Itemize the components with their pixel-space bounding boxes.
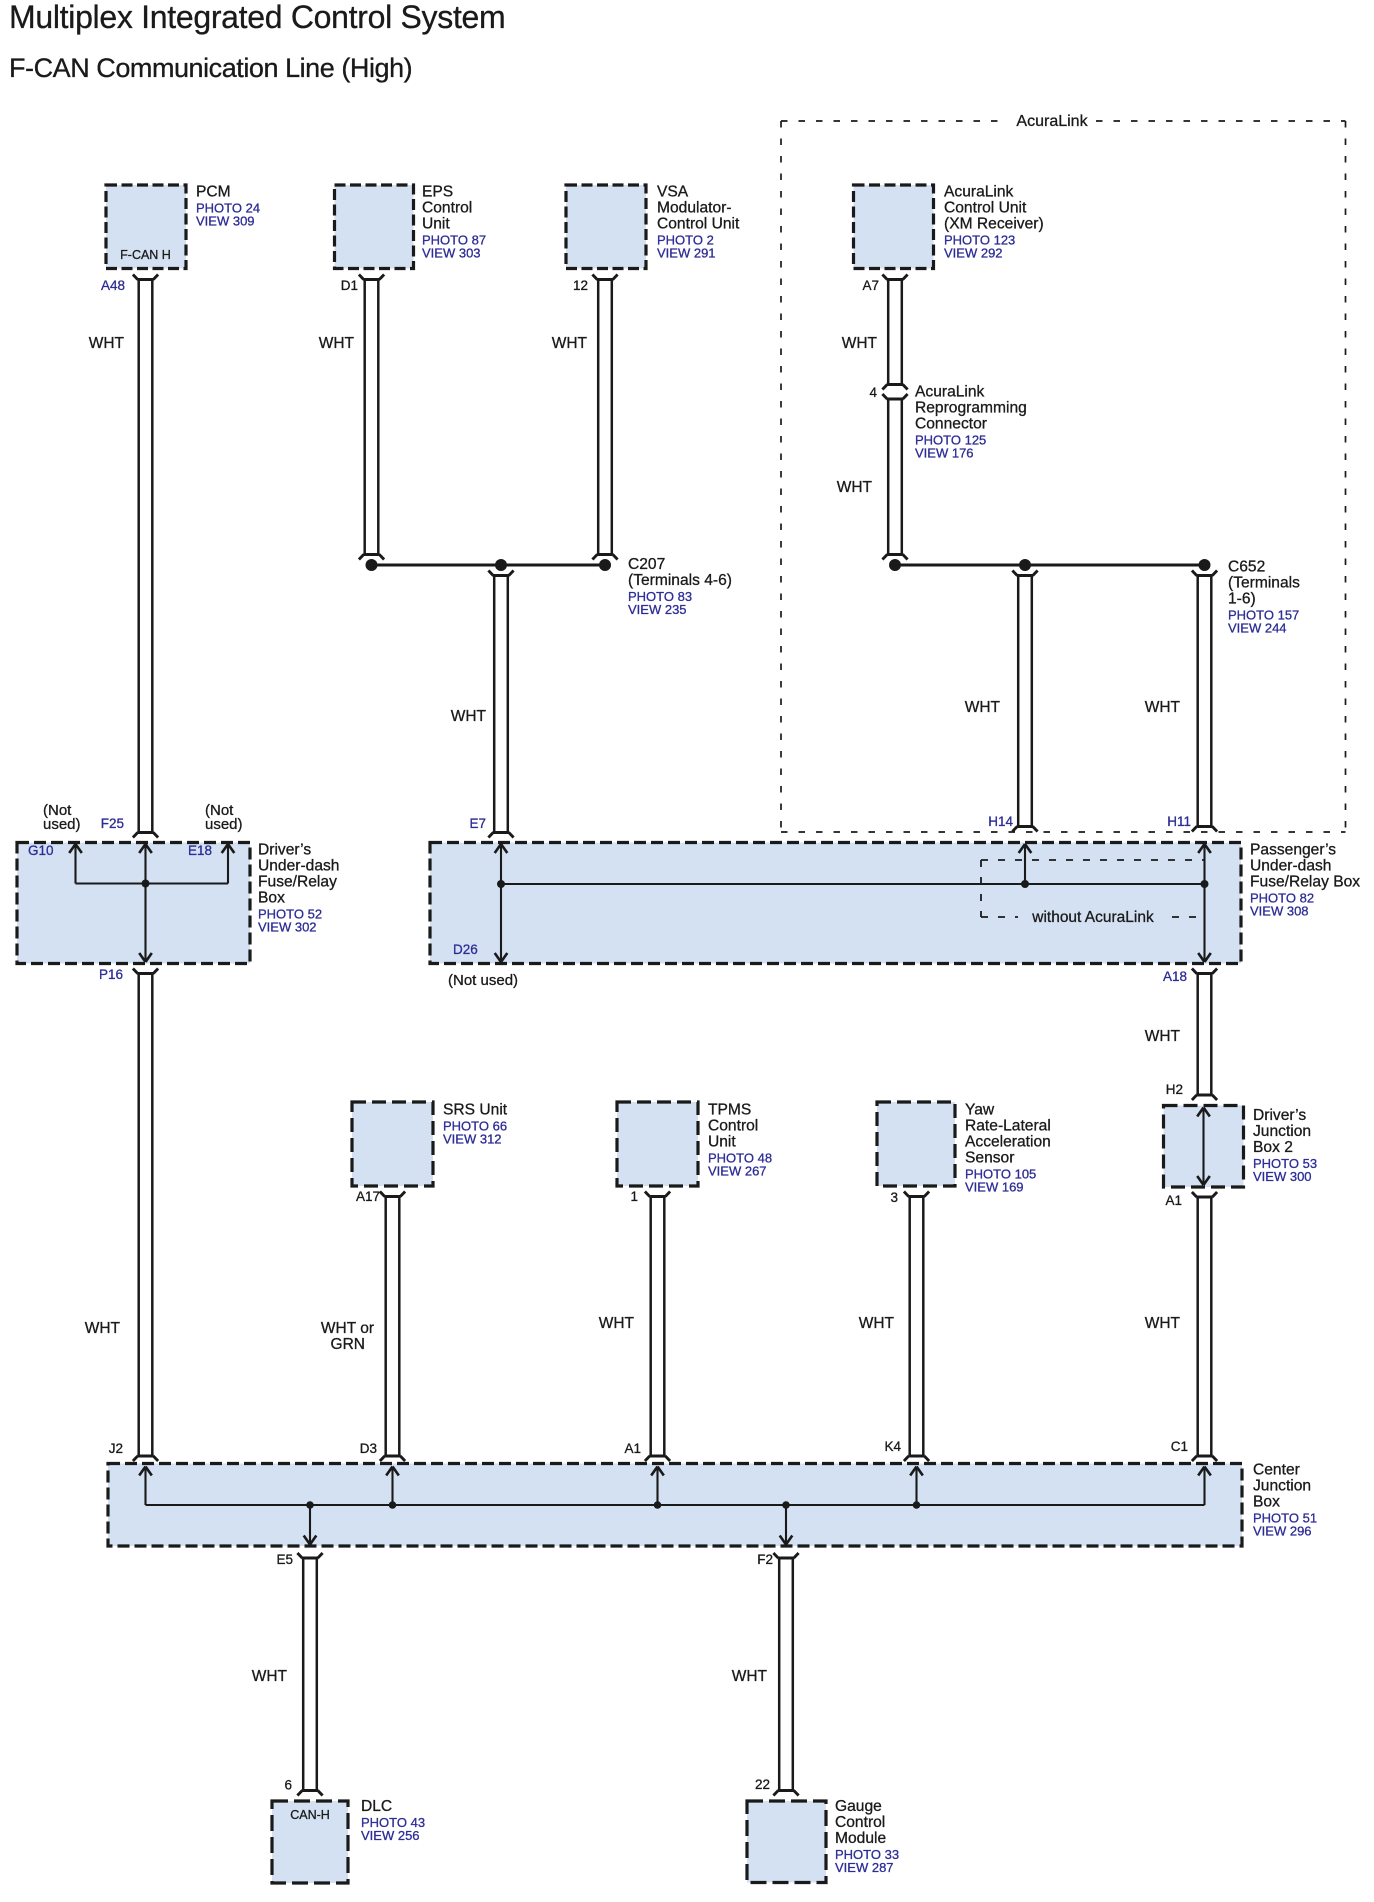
svg-text:VIEW 244: VIEW 244	[1228, 621, 1287, 636]
svg-text:Rate-Lateral: Rate-Lateral	[965, 1118, 1051, 1135]
svg-text:A1: A1	[1165, 1193, 1182, 1208]
svg-text:AcuraLink: AcuraLink	[1016, 113, 1088, 130]
svg-text:Fuse/Relay: Fuse/Relay	[258, 874, 337, 891]
svg-text:Control Unit: Control Unit	[657, 216, 740, 233]
svg-text:used): used)	[205, 816, 243, 833]
svg-text:Driver’s: Driver’s	[258, 842, 311, 859]
svg-text:PCM: PCM	[196, 184, 231, 201]
svg-text:VIEW 235: VIEW 235	[628, 602, 687, 617]
svg-text:Connector: Connector	[915, 416, 987, 433]
svg-text:D26: D26	[453, 942, 478, 957]
svg-text:3: 3	[890, 1190, 898, 1205]
svg-text:Box: Box	[258, 890, 285, 907]
svg-text:E5: E5	[276, 1552, 293, 1567]
svg-text:WHT: WHT	[837, 479, 873, 496]
svg-text:WHT: WHT	[732, 1668, 768, 1685]
svg-text:VIEW 302: VIEW 302	[258, 920, 317, 935]
svg-text:12: 12	[573, 278, 588, 293]
svg-text:Box 2: Box 2	[1253, 1139, 1293, 1156]
svg-text:AcuraLink: AcuraLink	[944, 184, 1014, 201]
svg-text:used): used)	[43, 816, 81, 833]
svg-text:Box: Box	[1253, 1494, 1280, 1511]
svg-text:WHT: WHT	[859, 1315, 895, 1332]
svg-text:VIEW 309: VIEW 309	[196, 214, 255, 229]
svg-text:VIEW 296: VIEW 296	[1253, 1524, 1312, 1539]
svg-text:Junction: Junction	[1253, 1123, 1311, 1140]
svg-text:VIEW 256: VIEW 256	[361, 1828, 420, 1843]
svg-text:F-CAN Communication Line (High: F-CAN Communication Line (High)	[9, 53, 412, 83]
svg-text:J2: J2	[109, 1441, 123, 1456]
svg-text:(Not used): (Not used)	[448, 972, 518, 989]
svg-text:E7: E7	[469, 816, 486, 831]
svg-text:Multiplex Integrated Control S: Multiplex Integrated Control System	[9, 0, 505, 35]
svg-text:SRS Unit: SRS Unit	[443, 1102, 508, 1119]
svg-text:Modulator-: Modulator-	[657, 200, 732, 217]
svg-text:F-CAN H: F-CAN H	[120, 248, 171, 262]
svg-text:G10: G10	[28, 843, 54, 858]
svg-text:Gauge: Gauge	[835, 1798, 882, 1815]
svg-text:Passenger’s: Passenger’s	[1250, 842, 1336, 859]
svg-text:Control: Control	[708, 1118, 758, 1135]
svg-text:A1: A1	[624, 1441, 641, 1456]
svg-text:H14: H14	[988, 814, 1013, 829]
svg-text:VIEW 292: VIEW 292	[944, 246, 1003, 261]
svg-text:WHT or: WHT or	[321, 1320, 374, 1337]
svg-text:VIEW 300: VIEW 300	[1253, 1169, 1312, 1184]
svg-text:VIEW 291: VIEW 291	[657, 246, 716, 261]
svg-text:E18: E18	[188, 843, 212, 858]
svg-text:Under-dash: Under-dash	[258, 858, 339, 875]
svg-text:H2: H2	[1166, 1082, 1183, 1097]
svg-text:WHT: WHT	[89, 335, 125, 352]
svg-text:H11: H11	[1167, 814, 1191, 829]
svg-text:Junction: Junction	[1253, 1478, 1311, 1495]
svg-text:WHT: WHT	[319, 335, 355, 352]
svg-text:P16: P16	[99, 967, 123, 982]
svg-text:TPMS: TPMS	[708, 1102, 751, 1119]
svg-text:A17: A17	[356, 1189, 380, 1204]
svg-text:F25: F25	[101, 816, 124, 831]
svg-text:Yaw: Yaw	[965, 1102, 995, 1119]
svg-text:Control Unit: Control Unit	[944, 200, 1027, 217]
svg-text:Unit: Unit	[422, 216, 450, 233]
svg-text:WHT: WHT	[1145, 699, 1181, 716]
svg-text:Under-dash: Under-dash	[1250, 858, 1331, 875]
svg-text:22: 22	[755, 1777, 770, 1792]
svg-text:Module: Module	[835, 1830, 886, 1847]
svg-text:WHT: WHT	[85, 1320, 121, 1337]
svg-text:VIEW 308: VIEW 308	[1250, 904, 1309, 919]
svg-text:(Terminals: (Terminals	[1228, 575, 1300, 592]
svg-text:VIEW 287: VIEW 287	[835, 1860, 894, 1875]
svg-text:Unit: Unit	[708, 1134, 736, 1151]
svg-text:Reprogramming: Reprogramming	[915, 400, 1027, 417]
svg-text:WHT: WHT	[599, 1315, 635, 1332]
svg-text:D3: D3	[360, 1441, 377, 1456]
svg-text:C207: C207	[628, 556, 665, 573]
svg-text:Sensor: Sensor	[965, 1150, 1014, 1167]
svg-text:Control: Control	[835, 1814, 885, 1831]
svg-text:WHT: WHT	[842, 335, 878, 352]
svg-text:C652: C652	[1228, 559, 1265, 576]
svg-text:A7: A7	[862, 278, 879, 293]
svg-text:Driver’s: Driver’s	[1253, 1107, 1306, 1124]
svg-text:1: 1	[630, 1189, 638, 1204]
svg-text:CAN-H: CAN-H	[290, 1808, 330, 1822]
svg-text:A18: A18	[1163, 969, 1187, 984]
svg-text:(XM Receiver): (XM Receiver)	[944, 216, 1044, 233]
svg-text:K4: K4	[884, 1439, 901, 1454]
svg-text:Center: Center	[1253, 1462, 1300, 1479]
svg-text:Fuse/Relay Box: Fuse/Relay Box	[1250, 874, 1360, 891]
svg-text:VIEW 176: VIEW 176	[915, 446, 974, 461]
svg-text:WHT: WHT	[965, 699, 1001, 716]
svg-text:without AcuraLink: without AcuraLink	[1031, 909, 1154, 926]
svg-text:WHT: WHT	[1145, 1028, 1181, 1045]
svg-text:VIEW 267: VIEW 267	[708, 1164, 767, 1179]
svg-text:WHT: WHT	[552, 335, 588, 352]
svg-text:4: 4	[869, 385, 877, 400]
svg-text:(Terminals 4-6): (Terminals 4-6)	[628, 572, 732, 589]
svg-text:VIEW 303: VIEW 303	[422, 246, 481, 261]
svg-text:DLC: DLC	[361, 1798, 392, 1815]
svg-text:A48: A48	[101, 278, 125, 293]
svg-text:Control: Control	[422, 200, 472, 217]
svg-text:VIEW 169: VIEW 169	[965, 1180, 1024, 1195]
svg-text:GRN: GRN	[331, 1336, 365, 1353]
svg-text:WHT: WHT	[252, 1668, 288, 1685]
svg-text:6: 6	[284, 1778, 292, 1793]
svg-text:WHT: WHT	[451, 708, 487, 725]
svg-text:VIEW 312: VIEW 312	[443, 1132, 502, 1147]
svg-text:C1: C1	[1171, 1439, 1188, 1454]
svg-text:EPS: EPS	[422, 184, 453, 201]
svg-text:1-6): 1-6)	[1228, 591, 1256, 608]
svg-text:AcuraLink: AcuraLink	[915, 384, 985, 401]
svg-text:WHT: WHT	[1145, 1315, 1181, 1332]
svg-text:F2: F2	[757, 1552, 773, 1567]
svg-text:D1: D1	[341, 278, 358, 293]
svg-text:Acceleration: Acceleration	[965, 1134, 1051, 1151]
svg-text:VSA: VSA	[657, 184, 689, 201]
